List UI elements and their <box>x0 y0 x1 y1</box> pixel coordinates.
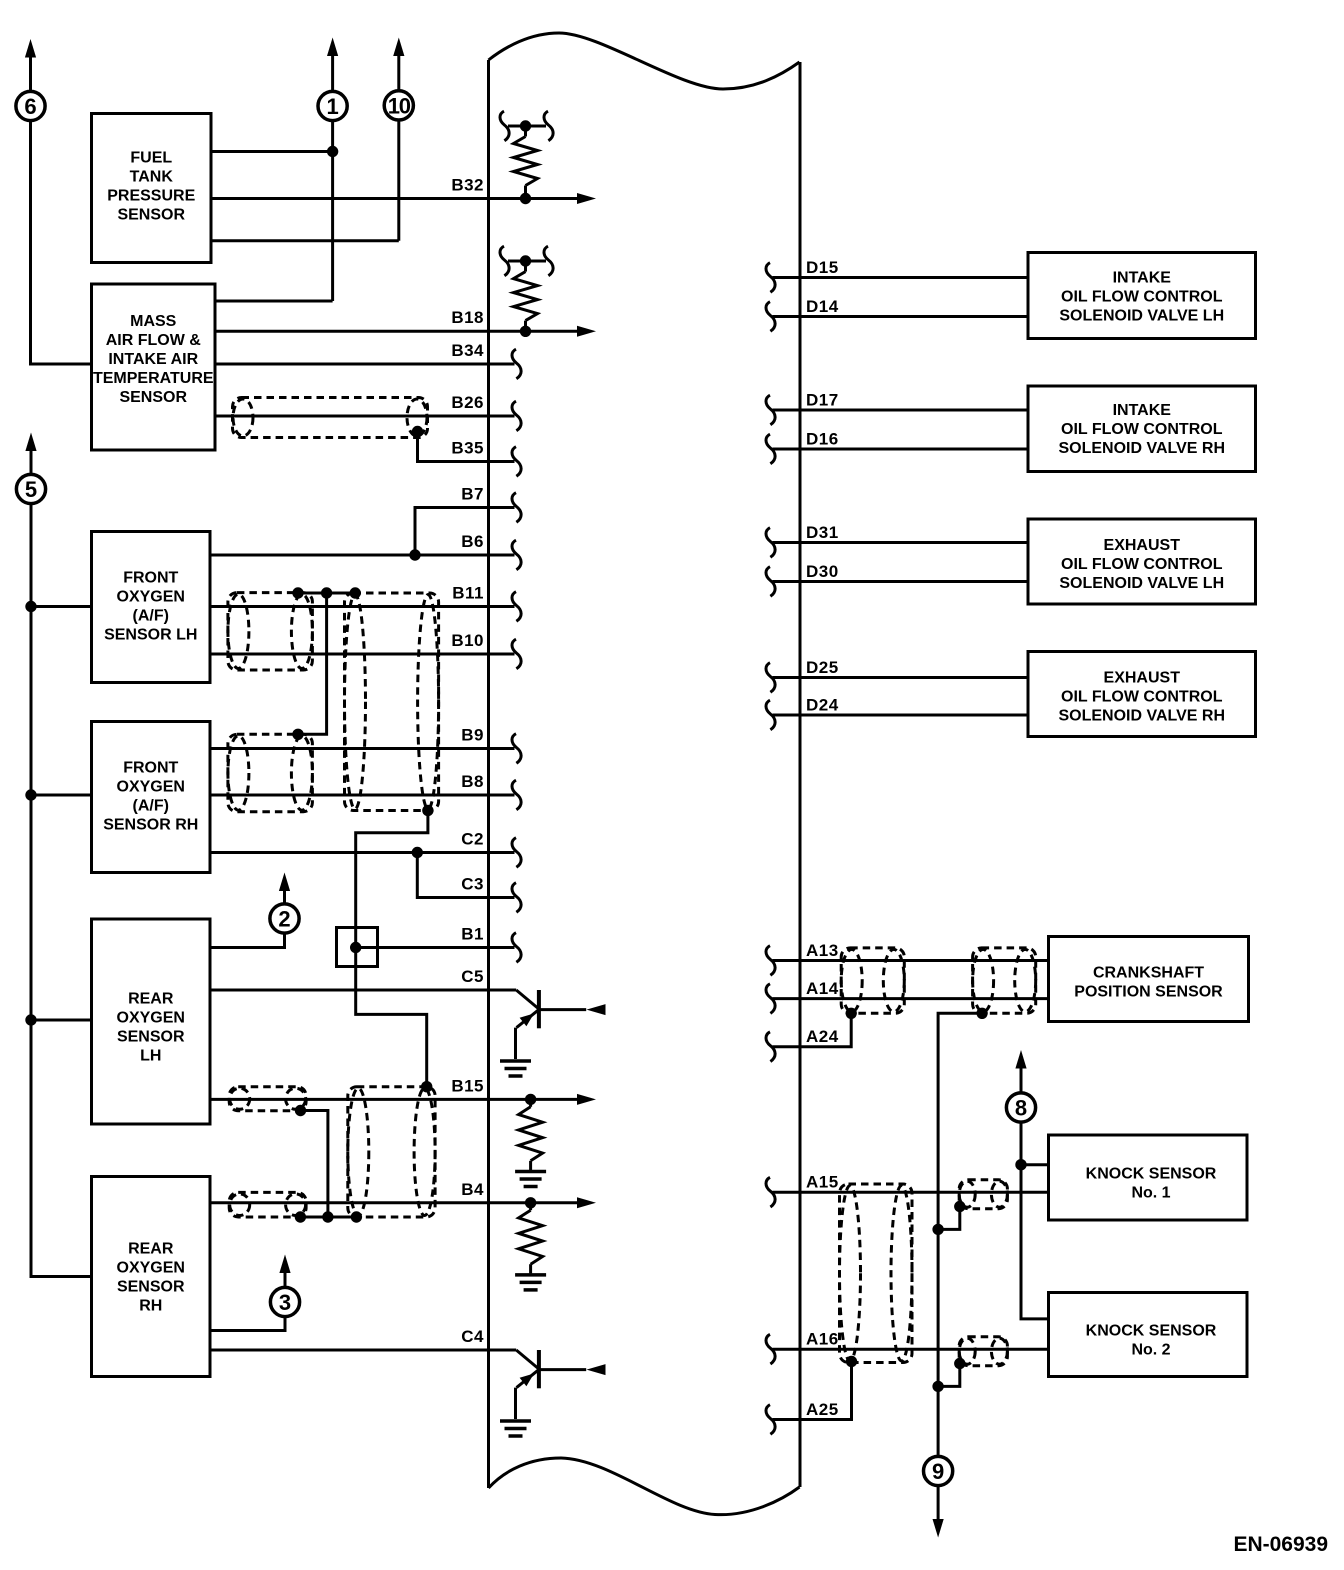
svg-text:B10: B10 <box>451 631 484 650</box>
pin D31 break curl <box>766 528 775 558</box>
wire D17 from ECU <box>773 409 1029 412</box>
node 9 reference circle and down arrow <box>924 1456 953 1537</box>
svg-text:B35: B35 <box>451 439 484 458</box>
svg-text:C2: C2 <box>461 830 484 849</box>
junction dot crank shield 2 <box>976 1008 987 1019</box>
shield tie vertical wire <box>298 593 327 734</box>
wire to knock sensor No.1 upper <box>1021 1163 1049 1166</box>
svg-text:B11: B11 <box>452 584 484 603</box>
junction dot B4/R4 <box>525 1197 536 1208</box>
svg-text:TEMPERATURE: TEMPERATURE <box>93 370 214 387</box>
svg-text:B7: B7 <box>461 485 484 504</box>
crankshaft position sensor box <box>1049 937 1249 1022</box>
shield ground run to B1 and rear shields <box>356 811 428 1087</box>
wire mass sensor to node 1 vertical <box>215 300 333 303</box>
svg-text:INTAKE: INTAKE <box>1113 270 1172 287</box>
pin A14 break curl <box>766 984 775 1014</box>
svg-text:EN-06939: EN-06939 <box>1233 1533 1328 1556</box>
wire D16 from ECU <box>773 448 1029 451</box>
svg-text:B34: B34 <box>451 341 484 360</box>
long shield around A15/A16 pair <box>840 1184 913 1363</box>
wire A25 to A15/A16 shield <box>773 1362 852 1420</box>
pin A25 break curl <box>766 1405 775 1435</box>
svg-text:OXYGEN: OXYGEN <box>117 1260 185 1277</box>
svg-text:D25: D25 <box>806 658 839 677</box>
stub wire to rear oxygen sensor LH <box>31 1019 92 1022</box>
wire B34 mass sensor to ECU <box>215 363 515 366</box>
resistor R2 pull-up on B18 <box>500 246 553 331</box>
svg-text:KNOCK SENSOR: KNOCK SENSOR <box>1086 1323 1217 1340</box>
node 5 reference circle and up arrow <box>16 433 45 504</box>
shield around B9/B8 pair at sensor <box>228 734 313 811</box>
junction dot shield RH <box>292 729 303 740</box>
svg-text:FRONT: FRONT <box>123 760 178 777</box>
arrow B4 internal <box>531 1201 577 1204</box>
mass air flow &amp; intake air temperature sensor box <box>92 284 216 450</box>
svg-text:REAR: REAR <box>128 991 174 1008</box>
wire B11 front oxygen LH to ECU <box>210 605 515 608</box>
fuel tank pressure sensor box <box>92 114 212 263</box>
wire A16 from ECU <box>773 1348 1049 1351</box>
wire C2 front oxygen RH to ECU <box>210 851 515 854</box>
arrow B15 internal <box>531 1098 577 1101</box>
transistor Q1 on C5 with ground <box>500 990 606 1076</box>
node 3 reference circle and up arrow <box>270 1255 299 1317</box>
wire C4 rear oxygen RH to ECU <box>210 1349 516 1352</box>
junction dot 5-bus / front oxygen RH <box>25 789 36 800</box>
svg-text:D31: D31 <box>806 523 839 542</box>
wire B4 rear oxygen RH to ECU <box>210 1201 531 1204</box>
wire B18 mass sensor to ECU <box>215 330 526 333</box>
wire node 8 to knock sensors <box>1021 1122 1049 1319</box>
pin B26 break curl <box>512 401 521 431</box>
svg-text:D15: D15 <box>806 258 839 277</box>
resistor R1 pull-up on B32 <box>500 111 553 198</box>
wire A24 to crank shield <box>773 1013 852 1046</box>
pin B1 break curl <box>512 933 521 963</box>
shield around A15 at knock sensor <box>959 1180 1007 1209</box>
svg-text:EXHAUST: EXHAUST <box>1104 537 1181 554</box>
wire C2 to C3 <box>417 853 514 898</box>
svg-text:TANK: TANK <box>130 169 174 186</box>
pin A15 break curl <box>766 1177 775 1207</box>
junction dot B26 shield to B35 <box>412 426 423 437</box>
svg-text:FRONT: FRONT <box>123 570 178 587</box>
svg-text:C5: C5 <box>461 967 484 986</box>
junction dot knock bus / A16 shield <box>932 1381 943 1392</box>
pin A16 break curl <box>766 1334 775 1364</box>
svg-text:OXYGEN: OXYGEN <box>117 1010 185 1027</box>
junction dot long shield top <box>350 587 361 598</box>
wire from node 2 to rear oxygen sensor LH <box>210 933 285 948</box>
shield around B11/B10 pair at sensor <box>228 593 313 670</box>
svg-text:KNOCK SENSOR: KNOCK SENSOR <box>1086 1166 1217 1183</box>
pin A13 break curl <box>766 946 775 976</box>
shield around A16 at knock sensor <box>959 1337 1007 1366</box>
svg-text:SENSOR: SENSOR <box>117 1029 185 1046</box>
svg-text:C3: C3 <box>461 875 484 894</box>
wire D15 from ECU <box>773 276 1029 279</box>
wire B7 to ECU <box>415 508 515 556</box>
junction dot rear tie bottom <box>322 1211 333 1222</box>
svg-text:No. 2: No. 2 <box>1131 1342 1170 1359</box>
bus wire from node 5 down to rear oxygen sensor RH <box>31 503 92 1276</box>
svg-text:A24: A24 <box>806 1027 839 1046</box>
svg-text:INTAKE AIR: INTAKE AIR <box>108 351 198 368</box>
pin B35 break curl <box>512 447 521 477</box>
pin D15 break curl <box>766 263 775 293</box>
svg-text:FUEL: FUEL <box>130 150 172 167</box>
svg-text:9: 9 <box>932 1459 944 1484</box>
svg-text:A15: A15 <box>806 1173 839 1192</box>
svg-text:(A/F): (A/F) <box>133 798 169 815</box>
svg-text:B32: B32 <box>451 176 484 195</box>
wire D31 from ECU <box>773 541 1029 544</box>
wire from node 1 down to fuel/mass sensor lines <box>331 120 334 301</box>
pin D14 break curl <box>766 302 775 332</box>
ground below R4 <box>515 1275 546 1290</box>
svg-text:REAR: REAR <box>128 1241 174 1258</box>
svg-text:POSITION SENSOR: POSITION SENSOR <box>1074 984 1223 1001</box>
wire A15 from ECU <box>773 1191 1049 1194</box>
junction dot 5-bus / front oxygen LH <box>25 601 36 612</box>
wire D30 from ECU <box>773 580 1029 583</box>
junction dot crank shield 1 <box>846 1008 857 1019</box>
knock sensor No. 1 box <box>1049 1135 1248 1220</box>
svg-text:D24: D24 <box>806 696 839 715</box>
svg-text:SENSOR RH: SENSOR RH <box>103 817 198 834</box>
wire B9 front oxygen RH to ECU <box>210 747 515 750</box>
pin A24 break curl <box>766 1032 775 1062</box>
pin B11 break curl <box>512 592 521 622</box>
junction dot B1 <box>350 942 361 953</box>
pin B7 break curl <box>512 493 521 523</box>
wire from node 3 to rear oxygen sensor RH <box>210 1316 285 1330</box>
svg-text:B18: B18 <box>451 308 484 327</box>
pin B9 break curl <box>512 734 521 764</box>
svg-text:RH: RH <box>139 1298 162 1315</box>
svg-text:D16: D16 <box>806 430 839 449</box>
resistor R3 on B15 to ground <box>519 1099 543 1170</box>
arrow B32 internal <box>526 197 578 200</box>
long shield around B11-B8 at ECU <box>345 593 439 811</box>
pin D25 break curl <box>766 663 775 693</box>
ground below R3 <box>515 1172 546 1187</box>
svg-text:OXYGEN: OXYGEN <box>117 779 185 796</box>
svg-text:LH: LH <box>140 1048 161 1065</box>
pin D24 break curl <box>766 700 775 730</box>
junction dot A15/A16 shield to A25 <box>846 1356 857 1367</box>
shield around A13/A14 pair at ECU <box>841 948 904 1013</box>
svg-text:B4: B4 <box>461 1180 484 1199</box>
ECU main harness block outline (torn-edge) <box>489 33 801 1515</box>
junction dot long shield bottom <box>422 805 433 816</box>
junction dot B4 shield <box>295 1211 306 1222</box>
svg-text:6: 6 <box>24 94 36 119</box>
svg-text:D14: D14 <box>806 297 839 316</box>
junction dot rear long shield top <box>421 1081 432 1092</box>
junction dot B15/R3 <box>525 1094 536 1105</box>
svg-text:SOLENOID VALVE LH: SOLENOID VALVE LH <box>1059 575 1224 592</box>
pin B8 break curl <box>512 780 521 810</box>
junction dot shield tie <box>321 587 332 598</box>
svg-text:3: 3 <box>279 1290 291 1315</box>
transistor Q2 on C4 with ground <box>500 1350 606 1436</box>
pin C2 break curl <box>512 838 521 868</box>
wire A14 from ECU <box>773 997 1049 1000</box>
exhaust oil flow control solenoid valve RH box <box>1028 652 1256 737</box>
shield around B26 wire <box>233 398 428 438</box>
svg-text:OIL FLOW CONTROL: OIL FLOW CONTROL <box>1061 421 1223 438</box>
wire B26 mass sensor to ECU <box>215 415 515 418</box>
svg-text:OXYGEN: OXYGEN <box>117 589 185 606</box>
intake oil flow control solenoid valve LH box <box>1028 253 1256 339</box>
node 10 reference circle and up arrow <box>384 38 413 121</box>
resistor R4 on B4 to ground <box>519 1203 543 1274</box>
junction dot node 8 / knock 1 <box>1015 1159 1026 1170</box>
svg-text:AIR FLOW &: AIR FLOW & <box>106 332 202 349</box>
stub wire to front oxygen sensor LH <box>31 605 92 608</box>
svg-text:B1: B1 <box>461 925 484 944</box>
wire B10 front oxygen LH to ECU <box>210 653 515 656</box>
wire B6 front oxygen LH to ECU <box>210 554 515 557</box>
wire B32 fuel sensor to ECU <box>211 197 526 200</box>
shield around A13/A14 pair at sensor <box>973 948 1036 1013</box>
wire fuel sensor to node 10 <box>211 239 399 242</box>
pin B6 break curl <box>512 540 521 570</box>
pin D16 break curl <box>766 434 775 464</box>
svg-text:SENSOR: SENSOR <box>117 1279 185 1296</box>
wire A13 from ECU <box>773 959 1049 962</box>
svg-text:B8: B8 <box>461 772 484 791</box>
rear oxygen sensor LH box <box>92 919 211 1124</box>
svg-text:8: 8 <box>1015 1096 1027 1121</box>
svg-text:A13: A13 <box>806 941 839 960</box>
svg-text:10: 10 <box>388 94 411 119</box>
junction dot B18/R2 <box>520 326 531 337</box>
rear oxygen sensor RH box <box>92 1177 211 1377</box>
stub wire to front oxygen sensor RH <box>31 794 92 797</box>
junction dot node 1 / fuel sensor <box>327 146 338 157</box>
junction dot rear long shield bottom-left <box>351 1211 362 1222</box>
long shield around B15/B4 at ECU <box>348 1087 435 1217</box>
junction dot B6/B7 <box>409 549 420 560</box>
node 1 reference circle and up arrow <box>318 38 347 121</box>
svg-text:B6: B6 <box>461 532 484 551</box>
arrow B18 internal <box>526 330 578 333</box>
rear shield tie wire <box>301 1111 328 1218</box>
wire A15 shield to knock bus <box>938 1207 960 1230</box>
wire from node 6 to mass air flow sensor <box>31 120 92 364</box>
rear shield tie bottom wire <box>300 1216 356 1219</box>
svg-text:SOLENOID VALVE LH: SOLENOID VALVE LH <box>1059 308 1224 325</box>
svg-text:A14: A14 <box>806 979 839 998</box>
node 2 reference circle and up arrow <box>270 873 299 934</box>
svg-text:B9: B9 <box>461 726 484 745</box>
junction dot knock bus / A15 shield <box>932 1224 943 1235</box>
shield around B15 wire at sensor <box>229 1087 306 1111</box>
svg-text:A25: A25 <box>806 1400 839 1419</box>
wire D14 from ECU <box>773 315 1029 318</box>
svg-text:OIL FLOW CONTROL: OIL FLOW CONTROL <box>1061 289 1223 306</box>
svg-text:(A/F): (A/F) <box>133 608 169 625</box>
exhaust oil flow control solenoid valve LH box <box>1028 519 1256 604</box>
shield tie wire top <box>298 592 355 595</box>
pin B34 break curl <box>512 349 521 379</box>
svg-text:EXHAUST: EXHAUST <box>1104 670 1181 687</box>
junction dot C2/C3 <box>412 847 423 858</box>
junction dot 5-bus / rear oxygen LH <box>25 1014 36 1025</box>
svg-text:SOLENOID VALVE RH: SOLENOID VALVE RH <box>1058 440 1225 457</box>
wire B8 front oxygen RH to ECU <box>210 794 515 797</box>
pin D17 break curl <box>766 395 775 425</box>
svg-text:SENSOR LH: SENSOR LH <box>104 627 197 644</box>
svg-text:5: 5 <box>25 477 37 502</box>
wire crank shield 2 to knock ground bus <box>938 1013 982 1457</box>
wire A16 shield to knock bus <box>938 1364 960 1387</box>
junction dot A15 shield <box>954 1201 965 1212</box>
front oxygen (A/F) sensor LH box <box>92 532 211 683</box>
svg-text:INTAKE: INTAKE <box>1113 402 1172 419</box>
junction dot shield LH <box>292 587 303 598</box>
svg-text:B26: B26 <box>451 393 484 412</box>
svg-text:A16: A16 <box>806 1330 839 1349</box>
svg-text:B15: B15 <box>451 1076 484 1095</box>
wire B1 to ECU <box>356 946 515 949</box>
pin B10 break curl <box>512 639 521 669</box>
wire fuel sensor to node 1 <box>211 150 333 153</box>
intake oil flow control solenoid valve RH box <box>1028 386 1256 472</box>
junction dot B32/R1 <box>520 193 531 204</box>
svg-text:OIL FLOW CONTROL: OIL FLOW CONTROL <box>1061 689 1223 706</box>
pin D30 break curl <box>766 567 775 597</box>
svg-text:No. 1: No. 1 <box>1131 1185 1170 1202</box>
wire D25 from ECU <box>773 676 1029 679</box>
wire C5 rear oxygen LH to ECU <box>210 989 516 992</box>
noise suppressor box on B1 <box>337 928 378 967</box>
junction dot A16 shield <box>954 1358 965 1369</box>
svg-text:1: 1 <box>326 94 338 119</box>
node 6 reference circle and up arrow <box>16 39 45 121</box>
pin C3 break curl <box>512 883 521 913</box>
wire B15 rear oxygen LH to ECU <box>210 1098 531 1101</box>
svg-text:SOLENOID VALVE RH: SOLENOID VALVE RH <box>1058 708 1225 725</box>
svg-text:MASS: MASS <box>130 313 177 330</box>
node 8 reference circle and up arrow <box>1006 1050 1035 1122</box>
svg-text:CRANKSHAFT: CRANKSHAFT <box>1093 965 1204 982</box>
svg-text:D17: D17 <box>806 391 839 410</box>
knock sensor No. 2 box <box>1049 1293 1248 1377</box>
shield around B4 wire at sensor <box>229 1192 306 1217</box>
svg-text:SENSOR: SENSOR <box>119 389 187 406</box>
wire from node 10 down to fuel sensor line 3 <box>397 120 400 241</box>
svg-text:PRESSURE: PRESSURE <box>107 188 195 205</box>
svg-text:2: 2 <box>278 907 290 932</box>
svg-text:D30: D30 <box>806 562 839 581</box>
junction dot B15 shield <box>295 1105 306 1116</box>
svg-text:C4: C4 <box>461 1327 484 1346</box>
wire B26 shield to B35 <box>418 432 515 462</box>
wire D24 from ECU <box>773 714 1029 717</box>
front oxygen (A/F) sensor RH box <box>92 722 211 873</box>
svg-text:OIL FLOW CONTROL: OIL FLOW CONTROL <box>1061 556 1223 573</box>
svg-text:SENSOR: SENSOR <box>117 207 185 224</box>
